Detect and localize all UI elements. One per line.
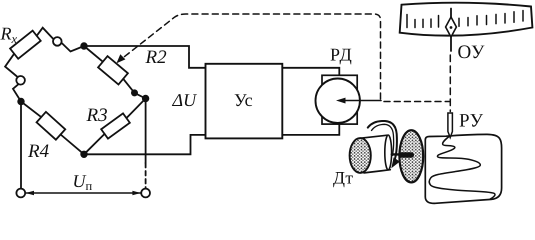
svg-text:Uп: Uп — [73, 171, 93, 193]
sensor Dt body cylinder — [361, 135, 391, 173]
wire R2 arm top lead — [84, 46, 103, 62]
indicator OU scale band — [400, 3, 533, 36]
wire R3 arm upper lead — [126, 99, 145, 119]
svg-text:ΔU: ΔU — [172, 90, 198, 110]
pointer needle line — [450, 9, 452, 52]
sensor Dt left stippled face — [350, 138, 371, 173]
terminal circle (sensor tap lower) — [16, 76, 25, 85]
wire right supply vertical solid part — [145, 99, 147, 164]
node top — [81, 43, 87, 49]
wire bridge bottom output to amplifier — [84, 135, 206, 154]
amplifier box Us — [206, 64, 283, 139]
sensor to drum shaft — [392, 153, 402, 155]
Un dimension arrowhead left — [26, 191, 34, 195]
motor shaft arrowhead — [336, 98, 346, 104]
wire left supply vertical — [20, 102, 22, 189]
linkage dashed: shaft up and over to R2 — [125, 14, 381, 99]
svg-text:R4: R4 — [27, 141, 50, 162]
pointer diamond — [446, 17, 457, 37]
svg-text:РУ: РУ — [459, 111, 484, 132]
pen RU — [448, 113, 453, 138]
node bottom — [81, 152, 87, 158]
drum hub black mark — [401, 152, 411, 158]
drum rotation arrow inner curve — [372, 124, 394, 155]
linkage arrowhead onto R2 — [117, 54, 126, 63]
motor rotor circle RD — [316, 79, 360, 123]
node right — [143, 96, 149, 102]
wire amplifier to motor bottom — [282, 124, 339, 135]
wire right supply vertical dashed part — [145, 163, 147, 189]
drum rotation arrow outer curve — [368, 121, 397, 160]
wire R4 arm upper lead — [21, 102, 41, 118]
svg-text:РД: РД — [330, 45, 353, 65]
terminal circle supply left — [16, 189, 25, 198]
node R2 lower junction — [132, 90, 137, 95]
linkage dashed: vertical to OU and RU — [449, 55, 451, 112]
Un dimension arrowhead right — [132, 191, 140, 195]
wire R2 arm lower lead — [123, 79, 145, 99]
terminal circle (sensor tap upper) — [53, 37, 62, 46]
wire Rx top lead to terminal — [37, 28, 54, 39]
chart drum stippled face — [399, 130, 423, 182]
resistor Rx body — [10, 31, 41, 59]
node left — [18, 99, 24, 105]
drum rotation arrowhead — [391, 157, 400, 168]
svg-text:Rx: Rx — [0, 24, 18, 47]
sensor Dt right end cap — [385, 135, 392, 170]
recorder paper sheet — [425, 134, 501, 203]
wire amplifier to motor top — [282, 68, 339, 76]
svg-text:R3: R3 — [86, 105, 108, 126]
pointer center dot — [450, 26, 453, 29]
linkage dashed: shaft to pen column — [384, 101, 450, 103]
resistor R3 body — [101, 113, 130, 138]
motor stator square — [322, 75, 357, 124]
recorded wavy trace — [429, 135, 495, 199]
motor shaft line — [344, 100, 381, 102]
svg-text:R2: R2 — [145, 47, 168, 68]
scale ticks — [407, 11, 523, 28]
wire bridge top output to amplifier — [84, 46, 206, 68]
terminal circle supply right — [141, 189, 150, 198]
wire Un dimension line with arrows — [26, 192, 141, 194]
svg-text:ОУ: ОУ — [458, 42, 486, 63]
resistor R2 body — [98, 56, 128, 84]
wire R3 arm lower lead — [84, 134, 105, 154]
wire R4 arm lower lead — [61, 135, 84, 155]
svg-text:Ус: Ус — [234, 90, 253, 110]
wire left arm zigzag below Rx — [5, 54, 21, 102]
svg-text:Дт: Дт — [333, 168, 354, 188]
resistor R4 body — [37, 112, 66, 140]
wire terminal to top node — [62, 43, 84, 52]
